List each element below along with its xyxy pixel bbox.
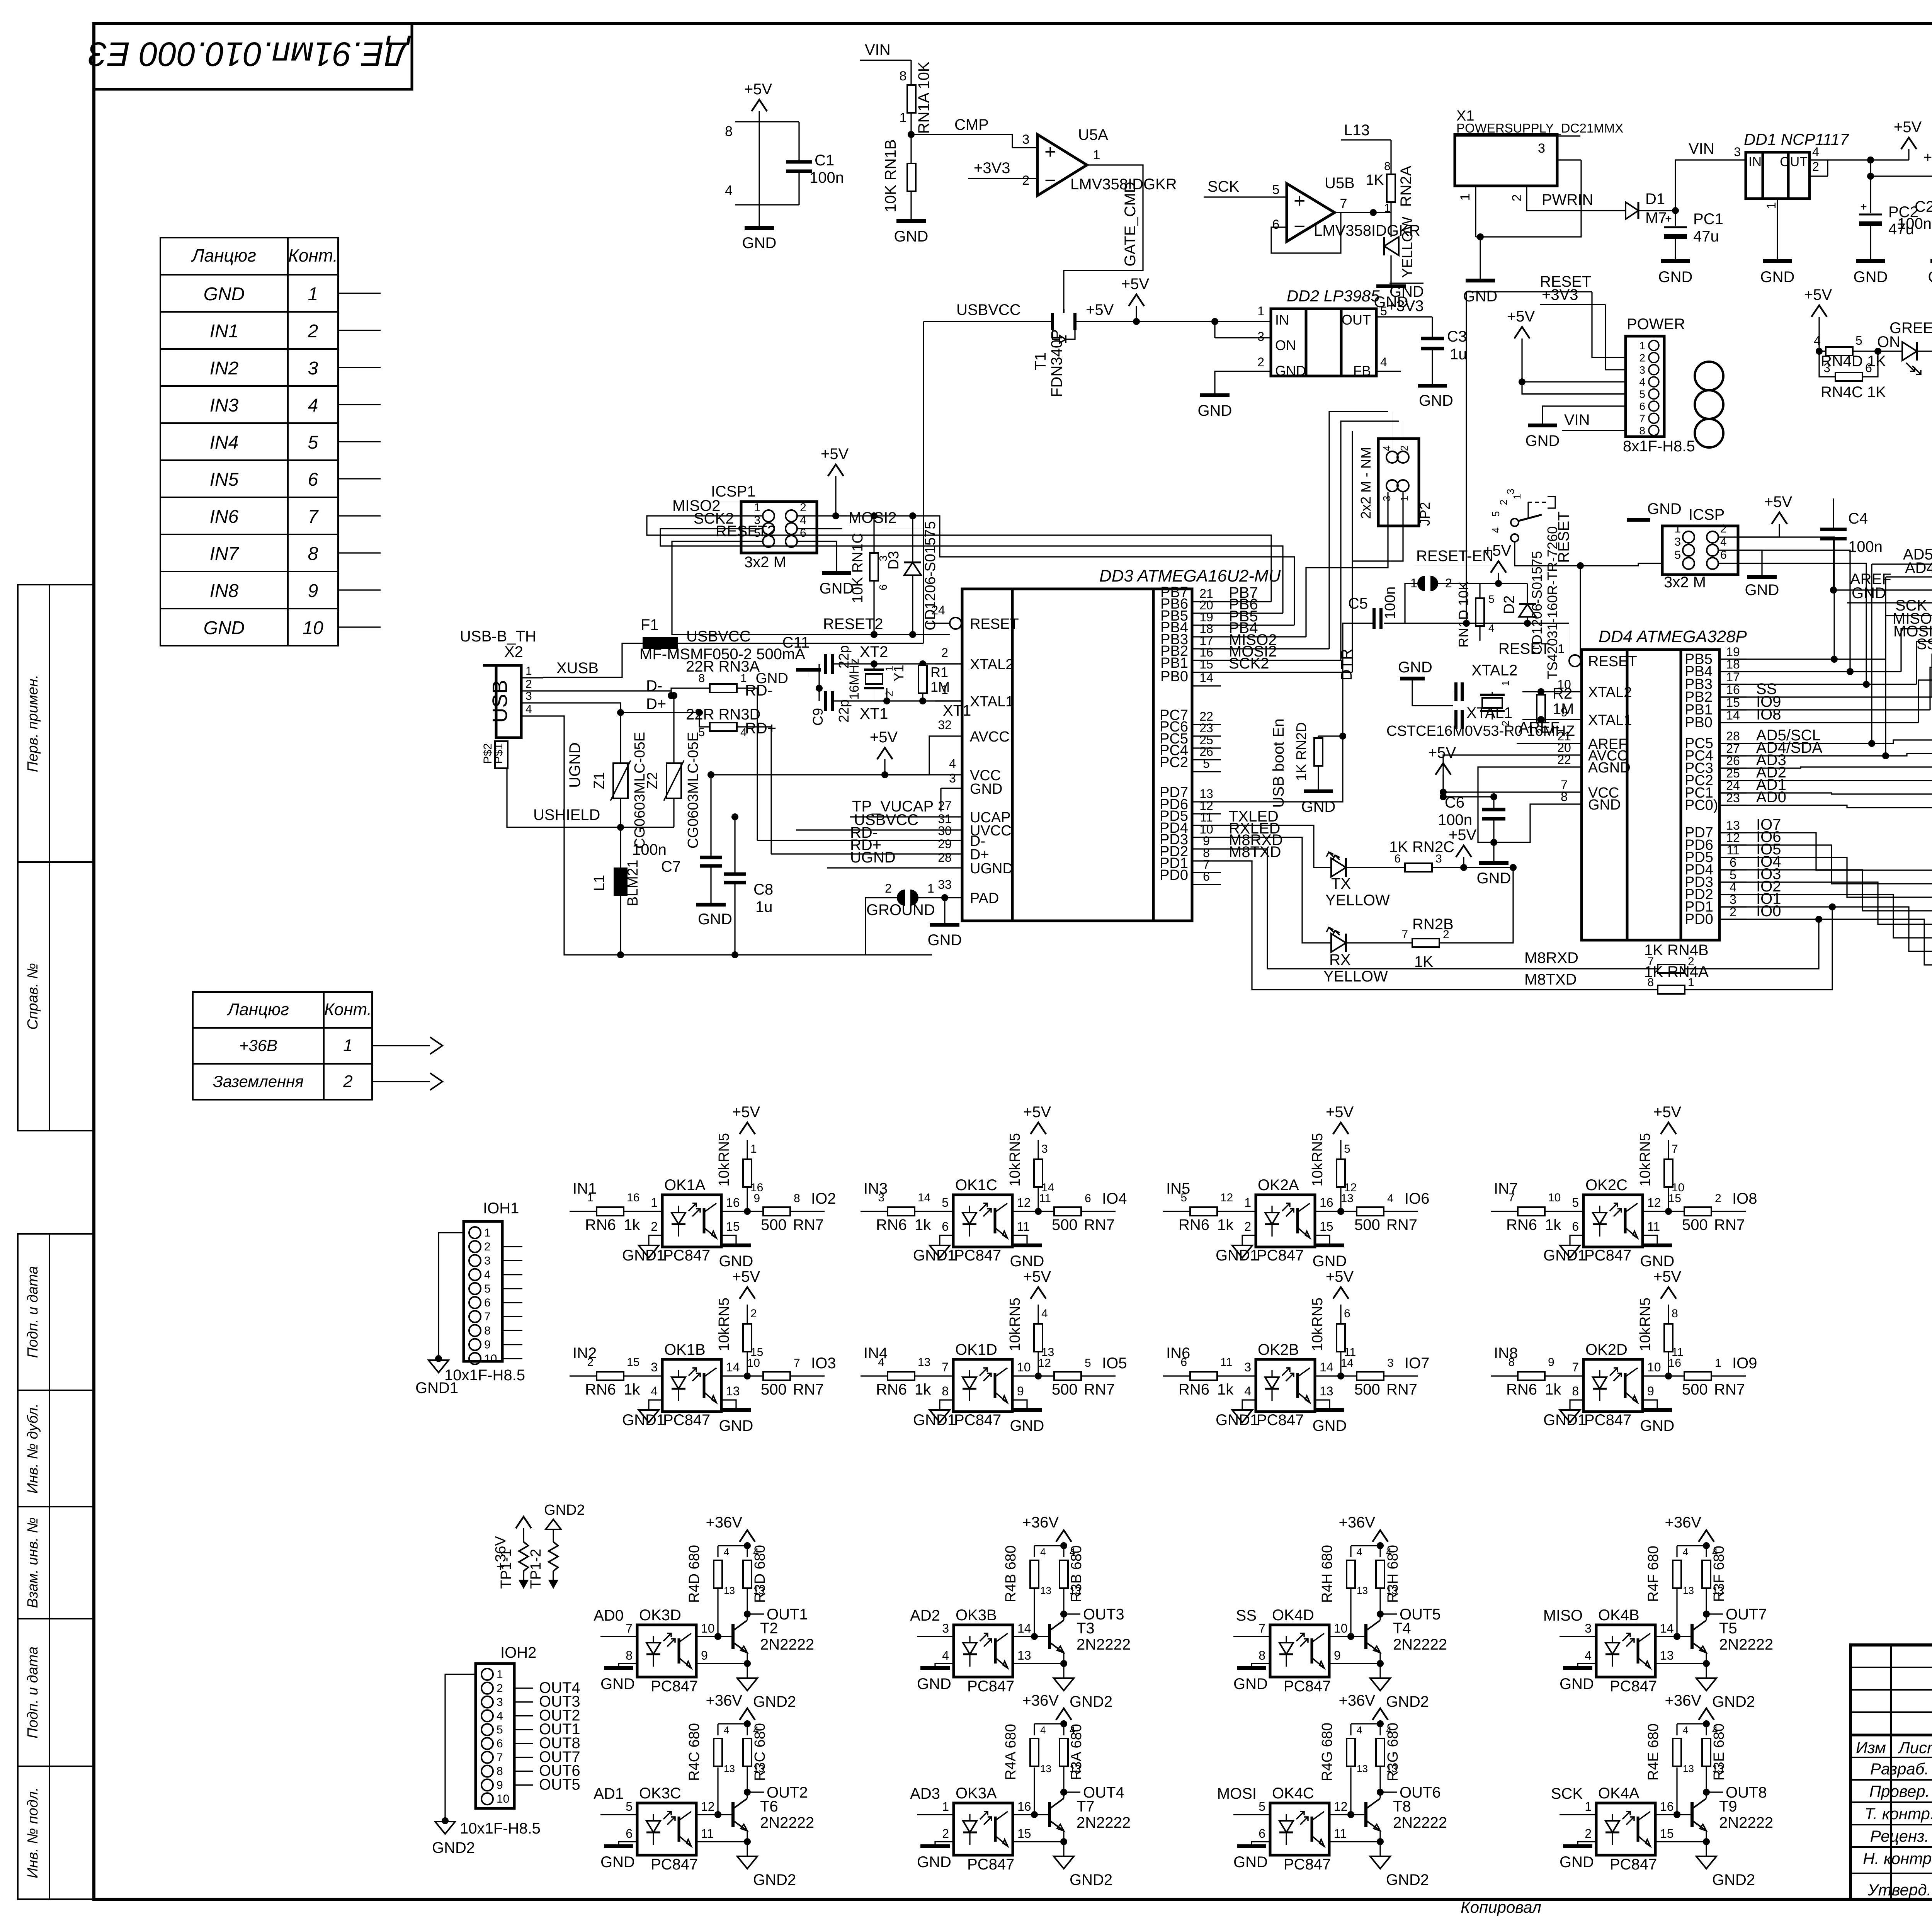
ground GND bar xyxy=(1315,1243,1344,1247)
svg-text:28: 28 xyxy=(938,850,952,864)
svg-text:11: 11 xyxy=(1334,1827,1347,1840)
ground GND bar xyxy=(1643,1243,1672,1247)
ground GND bar xyxy=(1563,1844,1592,1848)
svg-text:12: 12 xyxy=(1220,1191,1233,1204)
wire VIN to RN1A xyxy=(910,60,912,85)
svg-text:500: 500 xyxy=(1052,1381,1078,1398)
svg-text:10: 10 xyxy=(1647,1360,1661,1374)
svg-text:D-: D- xyxy=(646,677,662,694)
svg-text:4: 4 xyxy=(497,1709,503,1722)
wire GND to POWER pin6 xyxy=(1543,406,1626,424)
wire cathode of OK3A to GND xyxy=(935,1842,954,1845)
resistor RN5 10k pullup of OK2D xyxy=(1668,1349,1669,1376)
svg-text:U5A: U5A xyxy=(1078,126,1108,143)
optocoupler OK3C PC847 xyxy=(637,1803,696,1855)
pin AREF 21 of DD4 xyxy=(1557,743,1582,744)
svg-text:13: 13 xyxy=(724,1585,735,1596)
svg-text:PC847: PC847 xyxy=(1284,1856,1331,1873)
power +5V symbol above C1 xyxy=(752,100,767,111)
svg-text:2: 2 xyxy=(1398,446,1410,451)
svg-text:2: 2 xyxy=(1510,194,1524,202)
wire OK3A collector to base of T7 xyxy=(1013,1814,1049,1815)
wire crystal top to XT2 xyxy=(886,692,887,701)
op-amp U5A LMV358IDGKR xyxy=(1037,134,1087,196)
svg-text:2N2222: 2N2222 xyxy=(1393,1636,1447,1653)
wire OK3B collector to base of T3 xyxy=(1013,1636,1049,1637)
ground GND bar xyxy=(604,1844,633,1848)
svg-text:1: 1 xyxy=(484,1226,491,1239)
resistor RN3D 22R xyxy=(710,723,737,731)
ground GND2 triangle xyxy=(737,1856,757,1869)
svg-text:MOSI2: MOSI2 xyxy=(849,509,896,526)
resistor RN1B 10K xyxy=(907,163,916,191)
svg-text:3: 3 xyxy=(1244,1360,1251,1374)
svg-text:2: 2 xyxy=(1585,1827,1592,1840)
pin RESET 1 of DD4 xyxy=(1569,655,1581,667)
svg-text:2N2222: 2N2222 xyxy=(1719,1814,1773,1831)
svg-text:M8TXD: M8TXD xyxy=(1229,844,1281,861)
svg-text:GND: GND xyxy=(894,228,929,245)
svg-text:1k: 1k xyxy=(1217,1381,1234,1398)
transistor T6 2N2222 NPN xyxy=(731,1802,735,1827)
svg-text:CG0603MLC-05E: CG0603MLC-05E xyxy=(685,732,701,849)
svg-text:4: 4 xyxy=(1381,446,1393,451)
pin XTAL2 2 of DD3 xyxy=(935,663,962,664)
svg-text:+5V: +5V xyxy=(744,81,772,98)
svg-text:PD0: PD0 xyxy=(1685,911,1713,927)
svg-text:GND1: GND1 xyxy=(1216,1412,1259,1429)
wire cathode of OK3D to GND xyxy=(619,1664,637,1667)
resistor R2 1M at crystal xyxy=(1540,692,1541,695)
svg-text:13: 13 xyxy=(1040,1585,1051,1596)
svg-text:13: 13 xyxy=(1386,1585,1397,1596)
ground GND under C1 xyxy=(745,226,774,230)
svg-text:5: 5 xyxy=(1674,549,1681,561)
svg-text:9: 9 xyxy=(1017,1384,1024,1398)
svg-text:USB boot En: USB boot En xyxy=(1270,718,1287,808)
wire collector of T5 to OUT7 xyxy=(1703,1611,1710,1618)
optocoupler OK2C PC847 xyxy=(1583,1195,1643,1247)
svg-text:+36V: +36V xyxy=(1665,1692,1701,1709)
svg-text:4: 4 xyxy=(1387,1192,1394,1205)
optocoupler OK2B PC847 xyxy=(1256,1359,1315,1412)
wire RX led to RN2B xyxy=(1346,942,1412,943)
svg-text:+5V: +5V xyxy=(1086,301,1114,318)
svg-text:13: 13 xyxy=(1040,1763,1051,1774)
svg-text:XT1: XT1 xyxy=(860,705,888,722)
power +5V arrow at DD3 VCC xyxy=(877,748,893,759)
svg-text:10k: 10k xyxy=(1007,1162,1023,1186)
svg-text:19: 19 xyxy=(1726,645,1740,659)
table X pin 10 stub wire xyxy=(338,626,381,628)
svg-text:PC847: PC847 xyxy=(1257,1247,1304,1264)
svg-text:13: 13 xyxy=(918,1356,930,1369)
table X pin 2 stub wire xyxy=(338,330,381,331)
polarized capacitor PC1 47u xyxy=(1675,211,1676,226)
svg-text:3: 3 xyxy=(484,1254,491,1267)
svg-text:1: 1 xyxy=(526,665,532,677)
resistor R3 680 collector load xyxy=(1060,1560,1068,1588)
svg-text:2: 2 xyxy=(941,646,948,660)
svg-text:7: 7 xyxy=(1401,928,1408,941)
svg-text:5: 5 xyxy=(1259,1800,1265,1813)
svg-text:1: 1 xyxy=(1639,340,1645,352)
svg-text:M7: M7 xyxy=(1645,209,1667,226)
svg-text:GND: GND xyxy=(1398,659,1432,676)
svg-text:13: 13 xyxy=(724,1763,735,1774)
svg-text:27: 27 xyxy=(938,799,952,813)
capacitor C3 1u xyxy=(1421,337,1444,340)
svg-text:100n: 100n xyxy=(1897,215,1932,232)
svg-text:RESET: RESET xyxy=(970,616,1019,632)
svg-text:Инв. № дубл.: Инв. № дубл. xyxy=(25,1403,41,1494)
svg-text:AD0: AD0 xyxy=(594,1607,624,1624)
ground GND1 triangle xyxy=(1232,1410,1252,1422)
wire RESET-EN loop xyxy=(1384,583,1422,623)
capacitor C8 1u xyxy=(734,817,735,874)
svg-text:4: 4 xyxy=(1712,1546,1718,1558)
net label IO8 xyxy=(1711,1211,1746,1212)
resistor RN5 10k pullup of OK2B xyxy=(1340,1349,1341,1376)
wire LED to ground xyxy=(1390,255,1391,285)
wire AD3 to OK3A xyxy=(917,1814,954,1815)
svg-text:14: 14 xyxy=(1341,1357,1354,1369)
wire collector of T7 to OUT4 xyxy=(1060,1789,1067,1796)
svg-text:22R RN3A: 22R RN3A xyxy=(686,658,760,675)
wire emitter of T3 to GND2 xyxy=(1063,1653,1064,1664)
svg-text:GND2: GND2 xyxy=(753,1871,796,1888)
svg-text:4: 4 xyxy=(724,1724,729,1736)
svg-text:2: 2 xyxy=(750,1307,757,1320)
connector POWER 8x1F-H8.5 xyxy=(1626,336,1664,437)
svg-text:OK4B: OK4B xyxy=(1598,1607,1639,1624)
power +5V arrow on rail xyxy=(1129,294,1144,306)
svg-text:PC847: PC847 xyxy=(967,1678,1014,1695)
svg-text:GND2: GND2 xyxy=(1712,1693,1755,1710)
svg-text:+36V: +36V xyxy=(1338,1692,1375,1709)
svg-text:8: 8 xyxy=(1639,425,1645,437)
svg-text:RN7: RN7 xyxy=(793,1216,824,1233)
svg-text:OK2B: OK2B xyxy=(1258,1341,1299,1358)
svg-text:12: 12 xyxy=(701,1800,715,1813)
svg-text:7: 7 xyxy=(1508,1191,1515,1204)
svg-text:RN5: RN5 xyxy=(1310,1133,1326,1162)
svg-text:4: 4 xyxy=(1357,1546,1362,1558)
optocoupler OK3A PC847 xyxy=(954,1803,1013,1855)
wire RN4C to LED node xyxy=(1862,351,1878,377)
pin XTAL1 9 of DD4 xyxy=(1557,719,1582,720)
svg-text:3: 3 xyxy=(878,1191,884,1204)
svg-text:OUT3: OUT3 xyxy=(1083,1606,1124,1623)
LED L YELLOW xyxy=(1384,237,1399,255)
wire RESET node line to DD4 xyxy=(1384,623,1384,624)
svg-text:100n: 100n xyxy=(810,169,844,186)
svg-text:PAD: PAD xyxy=(970,890,999,907)
svg-text:2: 2 xyxy=(526,678,532,691)
svg-text:GND: GND xyxy=(1928,269,1932,286)
table X pin 8 stub wire xyxy=(338,552,381,553)
wire M8TXD from PD2 xyxy=(1221,861,1658,990)
svg-text:R4E 680: R4E 680 xyxy=(1645,1723,1662,1781)
svg-text:13: 13 xyxy=(1017,1648,1031,1662)
svg-text:22p: 22p xyxy=(836,699,852,723)
svg-text:RN5: RN5 xyxy=(1310,1298,1326,1327)
svg-text:1k: 1k xyxy=(1545,1216,1561,1233)
svg-text:GND2: GND2 xyxy=(544,1502,585,1518)
svg-text:JP2: JP2 xyxy=(1417,502,1433,526)
wire GROUND left to rail xyxy=(866,898,902,955)
power +36V arrow xyxy=(740,1530,755,1542)
wire ICSP pin6 GND xyxy=(1738,550,1762,576)
svg-text:AD4/SDA: AD4/SDA xyxy=(1905,560,1932,577)
svg-text:8: 8 xyxy=(698,672,705,685)
wire ICSP1 pin4 MOSI2 xyxy=(797,528,842,529)
resistor RN7 500 output of OK2C xyxy=(1684,1207,1711,1216)
svg-text:DD4 ATMEGA328P: DD4 ATMEGA328P xyxy=(1599,627,1747,646)
power +36V arrow xyxy=(740,1708,755,1720)
header ICSP 3x2M near DD4 xyxy=(1662,526,1738,575)
svg-text:5: 5 xyxy=(1855,333,1862,347)
wire +36V rail xyxy=(1351,1723,1380,1724)
capacitor C5 100n series xyxy=(1372,608,1376,629)
svg-text:YELLOW: YELLOW xyxy=(1325,892,1390,909)
svg-text:CG0603MLC-05E: CG0603MLC-05E xyxy=(632,732,648,849)
ground GND2 at IOH2 xyxy=(435,1822,455,1834)
svg-text:4: 4 xyxy=(1041,1307,1048,1320)
svg-text:7: 7 xyxy=(484,1310,491,1323)
optocoupler OK4D PC847 xyxy=(1270,1625,1329,1677)
svg-text:5: 5 xyxy=(1272,182,1280,197)
wire IOH2 pin1 to GND2 xyxy=(445,1674,476,1821)
table X pin 3 stub wire xyxy=(338,367,381,368)
ground GND2 triangle xyxy=(1696,1856,1716,1869)
svg-text:GND1: GND1 xyxy=(1543,1247,1586,1264)
svg-text:6: 6 xyxy=(484,1296,491,1309)
svg-text:4: 4 xyxy=(878,1356,884,1369)
svg-text:XTAL2: XTAL2 xyxy=(1588,684,1632,701)
wire F1 to USBVCC rail xyxy=(678,643,923,644)
resistor RN5 10k pullup of OK2C xyxy=(1668,1185,1669,1211)
testpoint GROUND xyxy=(897,890,905,906)
svg-text:7: 7 xyxy=(942,1360,949,1374)
svg-text:R4F 680: R4F 680 xyxy=(1645,1546,1662,1602)
svg-text:+5V: +5V xyxy=(1121,276,1150,293)
svg-text:VIN: VIN xyxy=(1689,140,1714,157)
power input table (Ланцюг/Конт +36В/Заземлення) xyxy=(193,992,372,1100)
svg-text:F1: F1 xyxy=(641,616,659,633)
svg-text:7: 7 xyxy=(308,507,319,527)
ground GND1 triangle xyxy=(1232,1245,1252,1258)
wire collector of T4 to OUT5 xyxy=(1377,1611,1384,1618)
svg-text:10: 10 xyxy=(303,618,323,638)
wire +36V rail xyxy=(1677,1723,1706,1724)
wire DD2 OUT +3V3 xyxy=(1376,316,1432,317)
svg-text:10: 10 xyxy=(1334,1621,1348,1635)
wire +5V to C1 node xyxy=(759,111,760,205)
resistor RN2B 1K xyxy=(1412,939,1439,947)
svg-text:C5: C5 xyxy=(1348,595,1368,612)
svg-text:IN6: IN6 xyxy=(210,507,239,527)
svg-text:Конт.: Конт. xyxy=(324,1000,372,1019)
svg-text:33: 33 xyxy=(938,878,952,891)
svg-text:16: 16 xyxy=(627,1191,639,1204)
wire collector of OK2A to output node xyxy=(1315,1211,1357,1212)
wire UGND from X2 pin4 down to bottom rail xyxy=(543,716,932,955)
left margin stamp boxes xyxy=(18,585,94,862)
wire M8RXD from PD3 xyxy=(1221,849,1658,969)
wire VCC rail to DD3 VCC pin xyxy=(711,774,962,775)
svg-text:2: 2 xyxy=(1244,1220,1251,1233)
svg-text:12: 12 xyxy=(1647,1196,1661,1209)
svg-text:13: 13 xyxy=(1070,1763,1081,1774)
svg-text:+36V: +36V xyxy=(706,1514,742,1531)
svg-text:9: 9 xyxy=(701,1648,708,1662)
svg-text:10: 10 xyxy=(747,1357,760,1369)
svg-text:11: 11 xyxy=(701,1827,714,1840)
ground GND bar xyxy=(1563,1666,1592,1670)
wires pushbutton to reset net xyxy=(1515,542,1580,623)
wire +36V rail xyxy=(718,1545,747,1546)
svg-text:GND1: GND1 xyxy=(913,1247,956,1264)
svg-text:D1: D1 xyxy=(1645,191,1665,208)
svg-text:SCK: SCK xyxy=(1551,1785,1583,1802)
svg-text:OUT8: OUT8 xyxy=(1726,1784,1767,1801)
wire emitter of T4 to GND2 xyxy=(1379,1653,1381,1664)
svg-text:L1: L1 xyxy=(591,875,607,891)
svg-text:16: 16 xyxy=(1017,1800,1031,1813)
svg-text:IN1: IN1 xyxy=(210,321,239,342)
wire emitter of T6 to GND2 xyxy=(747,1831,748,1842)
svg-text:1: 1 xyxy=(1257,304,1264,318)
wire RN6 to OK2B xyxy=(1217,1375,1256,1376)
svg-text:GND: GND xyxy=(1852,585,1886,602)
svg-text:7: 7 xyxy=(1572,1360,1579,1374)
svg-text:GND: GND xyxy=(1301,798,1336,815)
wire M8RXD to IO0 node xyxy=(1685,919,1819,969)
wire +36V rail xyxy=(1034,1545,1064,1546)
svg-text:C4: C4 xyxy=(1848,510,1868,527)
svg-text:+5V: +5V xyxy=(1653,1268,1682,1285)
svg-text:GND: GND xyxy=(742,235,777,252)
svg-text:10k: 10k xyxy=(716,1162,732,1186)
resistor R4 680 base pullup xyxy=(1350,1589,1351,1636)
svg-text:2: 2 xyxy=(1443,928,1449,941)
wire AVCC +5V and AGND xyxy=(1443,755,1557,797)
wire RN6 to OK1C xyxy=(915,1211,953,1212)
svg-text:Перв. примен.: Перв. примен. xyxy=(25,675,41,772)
svg-text:GND2: GND2 xyxy=(1712,1871,1755,1888)
wire emitter of T8 to GND2 xyxy=(1379,1831,1381,1842)
svg-text:CD1206-S01575: CD1206-S01575 xyxy=(1529,551,1545,655)
svg-text:5: 5 xyxy=(1180,1191,1187,1204)
svg-text:14: 14 xyxy=(1320,1360,1333,1374)
ground GND1 triangle xyxy=(1560,1410,1580,1422)
svg-text:R4C 680: R4C 680 xyxy=(686,1723,702,1781)
svg-text:2: 2 xyxy=(484,1240,491,1253)
wire cathode of OK3C to GND xyxy=(619,1842,637,1845)
svg-text:DD2 LP3985: DD2 LP3985 xyxy=(1287,287,1380,305)
svg-text:1k: 1k xyxy=(624,1216,640,1233)
svg-text:XTAL1: XTAL1 xyxy=(1588,712,1632,728)
svg-text:1: 1 xyxy=(308,284,318,304)
wire PAD to ground xyxy=(944,898,945,924)
svg-text:Z2: Z2 xyxy=(645,772,661,789)
power +5V above OK2A xyxy=(1333,1123,1349,1134)
pin stub 4 of C1 block xyxy=(735,204,759,205)
svg-text:10: 10 xyxy=(497,1793,509,1805)
svg-text:6: 6 xyxy=(877,584,889,590)
wire DD2 ON pin xyxy=(1214,321,1215,338)
svg-text:7: 7 xyxy=(794,1357,800,1369)
wire U5A output GATE_CMD xyxy=(1064,165,1143,309)
svg-text:R1: R1 xyxy=(930,664,948,680)
resistor R3 680 collector load xyxy=(743,1738,752,1766)
svg-text:OK4A: OK4A xyxy=(1598,1785,1639,1802)
svg-text:GND1: GND1 xyxy=(913,1412,956,1429)
svg-text:8x1F-H8.5: 8x1F-H8.5 xyxy=(1623,438,1695,455)
svg-text:IO4: IO4 xyxy=(1102,1190,1127,1207)
voltage regulator DD2 LP3985 xyxy=(1271,309,1376,376)
svg-text:RN5: RN5 xyxy=(1637,1133,1653,1162)
ground GND bar xyxy=(721,1408,751,1412)
resistor R3 680 collector load xyxy=(1060,1738,1068,1766)
svg-text:USHIELD: USHIELD xyxy=(533,806,600,823)
svg-text:GND2: GND2 xyxy=(1070,1693,1112,1710)
svg-text:+: + xyxy=(1860,201,1867,213)
wire DD2 FB stub xyxy=(1376,371,1401,372)
ground GND bar xyxy=(1237,1666,1266,1670)
wire DD3 GND pin stub xyxy=(941,788,962,789)
svg-text:11: 11 xyxy=(1647,1220,1660,1233)
wire U5B output to LED node xyxy=(1335,212,1391,213)
svg-text:13: 13 xyxy=(1341,1192,1354,1205)
svg-text:4: 4 xyxy=(1812,145,1819,159)
power +5V arrow TX/RX xyxy=(1456,845,1471,857)
svg-text:6: 6 xyxy=(1865,361,1872,375)
wire XTAL1 of DD4 xyxy=(1522,719,1557,720)
power +5V above OK2C xyxy=(1661,1123,1676,1134)
svg-text:IO9: IO9 xyxy=(1732,1355,1757,1372)
svg-text:6: 6 xyxy=(626,1827,633,1840)
resistor R4 680 base pullup xyxy=(1676,1767,1677,1815)
svg-text:PC847: PC847 xyxy=(651,1856,698,1873)
svg-text:1u: 1u xyxy=(755,898,773,915)
wire USBVCC to T1 xyxy=(923,321,1049,322)
svg-text:3: 3 xyxy=(949,771,956,785)
svg-text:OUT5: OUT5 xyxy=(539,1776,580,1793)
svg-text:L13: L13 xyxy=(1344,122,1370,139)
LED TX YELLOW xyxy=(1331,858,1346,877)
svg-text:6: 6 xyxy=(1259,1827,1265,1840)
wire TXLED to TX led xyxy=(1221,825,1331,867)
LED RX YELLOW xyxy=(1331,934,1346,952)
power +5V arrow at DD1 output xyxy=(1901,138,1917,149)
resistor R4 680 base pullup xyxy=(717,1589,718,1636)
svg-text:GND: GND xyxy=(1647,500,1682,517)
svg-text:1: 1 xyxy=(497,1668,503,1681)
svg-text:13: 13 xyxy=(1683,1763,1694,1774)
optocoupler OK2D PC847 xyxy=(1583,1359,1643,1412)
svg-text:PC0): PC0) xyxy=(1685,797,1718,813)
svg-text:GND: GND xyxy=(1760,269,1795,286)
svg-text:3: 3 xyxy=(1639,364,1645,376)
wire M8TXD to IO1 node xyxy=(1685,907,1832,990)
svg-text:GND: GND xyxy=(1233,1854,1268,1871)
svg-text:GND: GND xyxy=(1658,269,1693,286)
svg-text:VIN: VIN xyxy=(1564,412,1590,429)
svg-text:Подп. и дата: Подп. и дата xyxy=(25,1266,41,1358)
svg-text:5: 5 xyxy=(497,1723,503,1736)
